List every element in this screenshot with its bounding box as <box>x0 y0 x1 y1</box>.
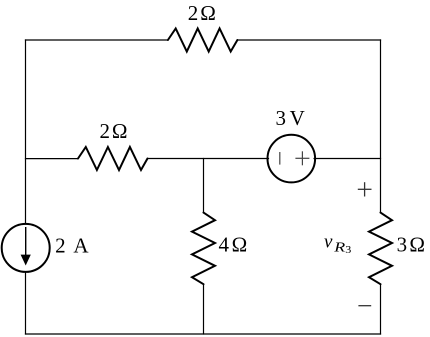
svg-text:2: 2 <box>188 1 199 25</box>
svg-text:Ω: Ω <box>112 119 128 143</box>
svg-text:A: A <box>73 233 89 257</box>
svg-text:3: 3 <box>345 245 351 256</box>
svg-text:Ω: Ω <box>200 1 216 25</box>
svg-text:3: 3 <box>275 106 286 130</box>
svg-text:Ω: Ω <box>232 233 248 257</box>
svg-text:2: 2 <box>100 119 111 143</box>
svg-text:2: 2 <box>55 233 66 257</box>
svg-text:v: v <box>324 232 333 253</box>
svg-text:4: 4 <box>218 233 229 257</box>
svg-text:3: 3 <box>397 233 408 257</box>
svg-text:Ω: Ω <box>409 233 425 257</box>
svg-text:R: R <box>333 240 345 255</box>
svg-text:V: V <box>290 106 305 130</box>
